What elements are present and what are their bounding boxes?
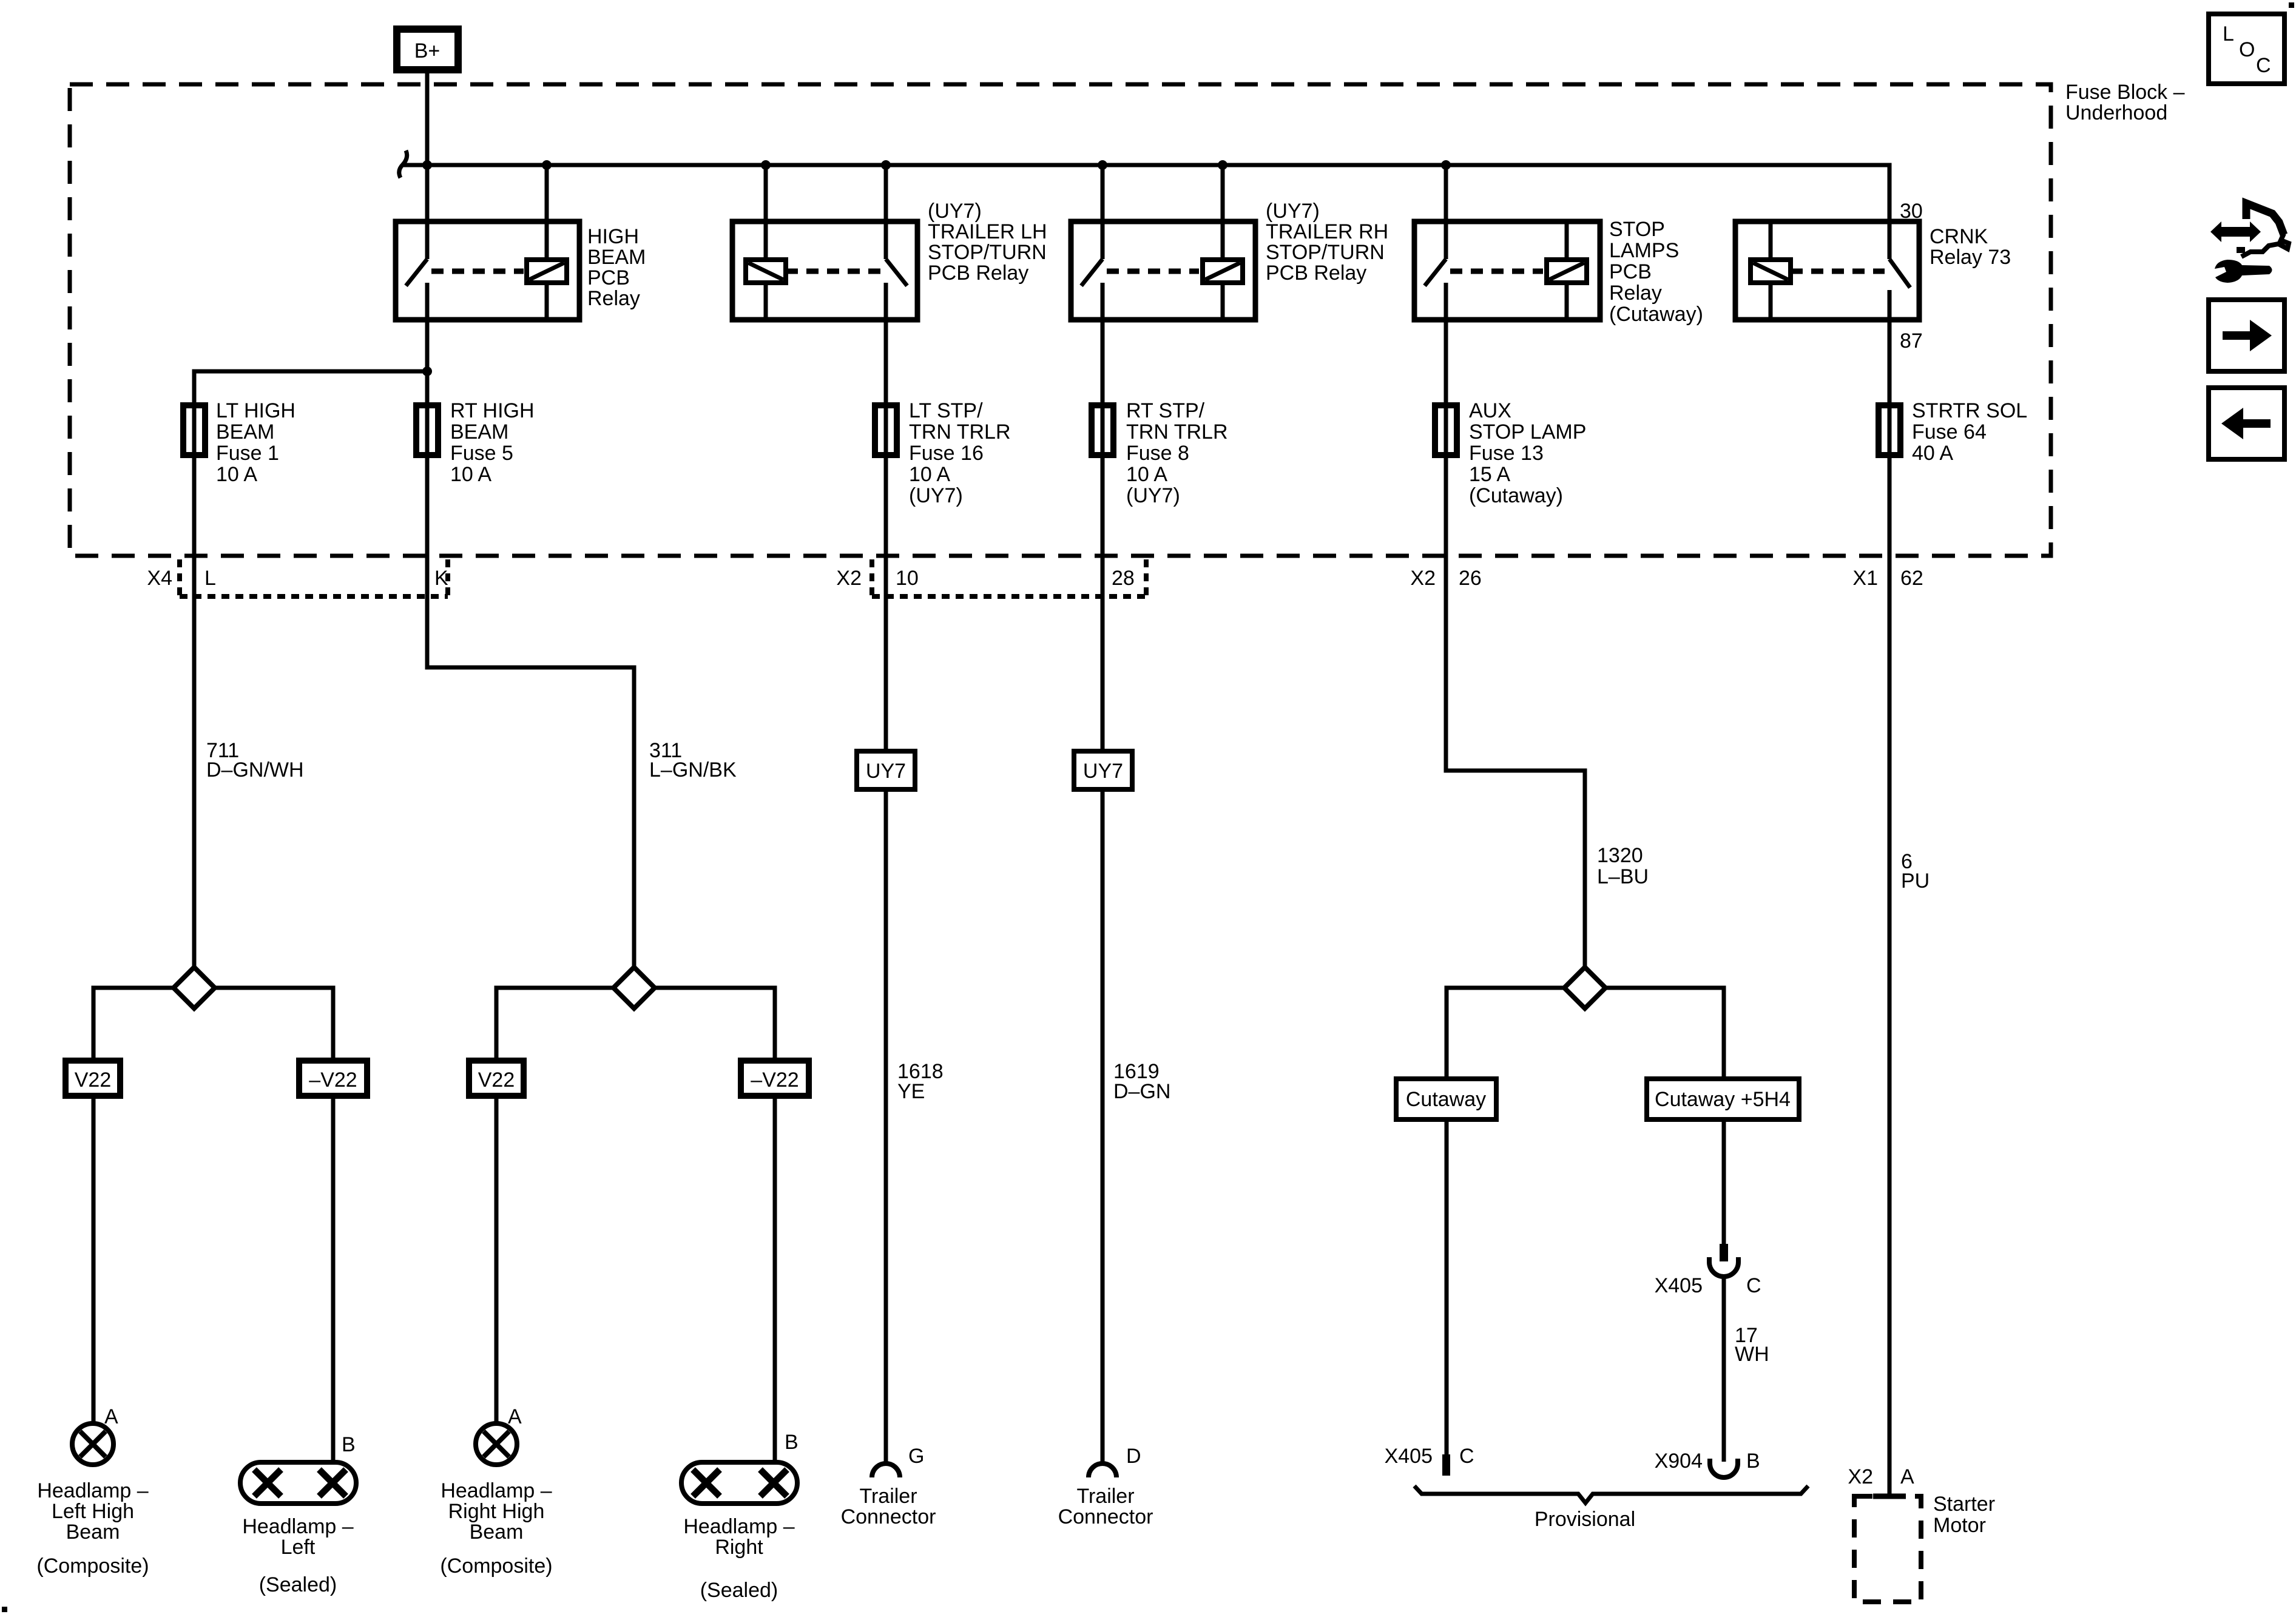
svg-text:X1: X1 [1852,567,1878,590]
svg-text:V22: V22 [478,1068,515,1092]
label wire 711 D-GN/WH [206,739,304,781]
svg-text:Fuse 13: Fuse 13 [1469,442,1544,465]
page mark bottom left [2,1607,7,1612]
wire S1 left branch [93,988,175,1062]
svg-text:Right High: Right High [448,1500,545,1523]
svg-text:K: K [434,567,448,590]
svg-text:RT STP/: RT STP/ [1126,399,1205,422]
component Starter Motor dashed box [1854,1496,1921,1602]
svg-text:TRN TRLR: TRN TRLR [1126,420,1228,444]
svg-text:LT HIGH: LT HIGH [216,399,295,422]
svg-text:Cutaway +5H4: Cutaway +5H4 [1655,1088,1791,1111]
svg-text:LAMPS: LAMPS [1609,239,1679,262]
wire terminal T-bar at starter [1873,1494,1906,1499]
svg-text:Starter: Starter [1933,1493,1995,1516]
icon arrow left box [2209,388,2284,459]
svg-text:YE: YE [897,1080,925,1103]
svg-text:D–GN/WH: D–GN/WH [206,758,304,781]
label trailer connector left [841,1485,936,1528]
label connector X405 pin C second [1655,1274,1761,1297]
svg-text:L–GN/BK: L–GN/BK [649,758,737,781]
svg-text:X405: X405 [1655,1274,1703,1297]
svg-text:G: G [908,1445,924,1468]
label Starter Motor [1933,1493,1995,1537]
icon arrow right box [2209,300,2284,371]
svg-text:–V22: –V22 [751,1068,799,1092]
svg-text:–V22: –V22 [309,1068,357,1092]
wire S2 right branch [653,988,775,1062]
svg-text:(Cutaway): (Cutaway) [1609,303,1703,326]
svg-text:Cutaway: Cutaway [1406,1088,1486,1111]
wire +5H4 to X405 [1722,1119,1726,1244]
relay K5 CRNK Relay 73 [1735,221,1919,322]
svg-text:TRN TRLR: TRN TRLR [909,420,1011,444]
svg-text:O: O [2239,38,2255,61]
label lamp E1 [36,1479,149,1578]
svg-text:TRAILER RH: TRAILER RH [1266,220,1388,243]
lamp E2 Headlamp Left sealed [240,1462,356,1504]
wire V22 left to lamp [92,1096,96,1423]
svg-text:X405: X405 [1385,1445,1433,1468]
inline connector box V22 right [469,1061,524,1096]
svg-text:X904: X904 [1655,1450,1703,1473]
inline option box UY7 left [857,751,915,789]
svg-text:Fuse 8: Fuse 8 [1126,442,1189,465]
svg-text:15 A: 15 A [1469,463,1510,486]
wire V22 right to lamp [495,1096,499,1423]
svg-text:BEAM: BEAM [216,420,274,444]
label fuse F64 [1912,399,2027,465]
splice S3 [1564,967,1606,1008]
svg-text:30: 30 [1900,200,1923,223]
label relay K3 [1266,200,1388,285]
svg-text:10 A: 10 A [909,463,950,486]
svg-text:PCB Relay: PCB Relay [928,262,1028,285]
fuse F64 STRTR SOL [1879,322,1900,458]
svg-text:Fuse 1: Fuse 1 [216,442,279,465]
label trailer connector right [1058,1485,1153,1528]
label relay K1 [587,225,646,310]
label fuse F16 [909,399,1011,507]
inline connector box V22 left [66,1061,120,1096]
label wire 1320 L-BU [1597,844,1649,888]
svg-text:28: 28 [1112,567,1135,590]
svg-text:Headlamp –: Headlamp – [37,1479,148,1502]
svg-text:(Composite): (Composite) [440,1555,552,1578]
svg-text:STRTR SOL: STRTR SOL [1912,399,2027,422]
svg-text:Trailer: Trailer [1076,1485,1134,1508]
svg-text:C: C [1459,1445,1474,1468]
svg-text:L: L [204,567,216,590]
svg-text:WH: WH [1735,1343,1769,1366]
svg-text:(UY7): (UY7) [1266,200,1320,223]
svg-text:PU: PU [1901,869,1930,893]
svg-text:STOP LAMP: STOP LAMP [1469,420,1586,444]
label connector X405 pin C [1385,1445,1474,1468]
lamp E1 Headlamp Left High Beam [72,1423,113,1465]
bus inline connector arc [399,150,407,178]
svg-text:X2: X2 [1410,567,1436,590]
label relay K2 [928,200,1047,285]
svg-text:Relay: Relay [1609,282,1662,305]
connector X904 pin B socket [1710,1459,1738,1477]
svg-text:A: A [104,1405,118,1428]
label lamp E3 [440,1479,552,1578]
label wire 17 WH [1735,1324,1769,1366]
svg-text:B: B [342,1433,356,1456]
svg-text:1320: 1320 [1597,844,1643,867]
label relay K4 [1609,218,1703,326]
lamp E4 Headlamp Right sealed [681,1462,797,1504]
svg-text:L–BU: L–BU [1597,865,1649,888]
svg-text:Provisional: Provisional [1535,1508,1635,1531]
svg-text:B: B [785,1431,799,1454]
node bus junction B+ [422,160,432,170]
inline connector box -V22 left [299,1061,367,1096]
svg-text:C: C [2256,54,2271,77]
component box Cutaway [1396,1079,1496,1119]
svg-text:(Sealed): (Sealed) [259,1573,337,1596]
wire 1619 to UY7 [1101,458,1105,752]
svg-text:TRAILER LH: TRAILER LH [928,220,1047,243]
svg-text:D–GN: D–GN [1113,1080,1170,1103]
brace provisional group [1414,1486,1808,1503]
svg-text:Left High: Left High [52,1500,134,1523]
wire Cutaway to X405 [1445,1119,1449,1456]
wire B+ feed [425,70,430,165]
wire 711 circuit [192,458,197,968]
svg-text:Fuse Block –: Fuse Block – [2065,81,2185,104]
splice S1 [174,967,215,1008]
label fuse F1 [216,399,295,486]
svg-text:Underhood: Underhood [2065,101,2167,124]
svg-text:(UY7): (UY7) [909,484,963,507]
label connector X2 pin A [1848,1465,1914,1488]
wire -V22 right to lamp [773,1096,777,1463]
wire 311 circuit [427,458,634,968]
svg-text:BEAM: BEAM [450,420,508,444]
connector X405 pin C terminal [1442,1454,1450,1476]
svg-text:Left: Left [281,1536,316,1559]
svg-text:Right: Right [715,1536,763,1559]
connector X4 band [180,559,448,598]
svg-text:B+: B+ [414,39,441,62]
svg-text:PCB: PCB [587,266,630,289]
label fuse F5 [450,399,535,486]
svg-text:Relay: Relay [587,287,640,310]
page mark top right [2289,2,2294,8]
svg-text:Fuse 16: Fuse 16 [909,442,984,465]
node bus junction TRLH switch [881,160,891,170]
splice S2 [613,967,655,1008]
connector trailer left [872,1463,900,1477]
connector trailer right [1089,1463,1116,1477]
fuse F16 LT STP/TRN TRLR [875,322,897,458]
svg-text:Headlamp –: Headlamp – [441,1479,552,1502]
power symbol B+ [397,29,458,70]
lamp E3 Headlamp Right High Beam [476,1423,517,1465]
svg-text:Beam: Beam [470,1521,524,1544]
svg-text:X4: X4 [147,567,172,590]
relay K4 STOP LAMPS PCB Relay (Cutaway) [1414,165,1600,322]
svg-text:40 A: 40 A [1912,442,1953,465]
svg-text:Beam: Beam [66,1521,120,1544]
fuse F5 RT HIGH BEAM [416,402,438,458]
svg-text:(UY7): (UY7) [1126,484,1180,507]
relay K2 TRAILER LH STOP/TURN PCB Relay [732,165,917,322]
svg-text:B: B [1746,1450,1760,1473]
label wire 6 PU [1901,850,1930,893]
wire HB relay output junction branch [194,371,427,402]
svg-text:V22: V22 [75,1068,112,1092]
svg-text:STOP/TURN: STOP/TURN [1266,241,1385,264]
svg-text:10 A: 10 A [450,463,491,486]
wire -V22 left to lamp [331,1096,336,1463]
svg-text:(Sealed): (Sealed) [700,1579,778,1602]
node bus junction STOP switch [1441,160,1451,170]
node bus junction TRLH coil [761,160,771,170]
svg-text:(Cutaway): (Cutaway) [1469,484,1563,507]
wire main bus [403,165,1889,259]
svg-text:Connector: Connector [841,1505,936,1528]
node bus junction TRRH coil [1218,160,1227,170]
svg-text:Relay 73: Relay 73 [1930,246,2011,269]
label relay K5 [1930,225,2011,269]
svg-text:CRNK: CRNK [1930,225,1988,248]
inline connector box -V22 right [741,1061,809,1096]
fuse F1 LT HIGH BEAM [183,402,205,458]
svg-text:RT HIGH: RT HIGH [450,399,535,422]
wire S1 right branch [214,988,333,1062]
svg-text:Fuse 64: Fuse 64 [1912,420,1987,444]
svg-text:PCB: PCB [1609,260,1652,283]
svg-text:A: A [1900,1465,1914,1488]
wire 1320 circuit [1446,458,1585,968]
wire 17 WH [1722,1276,1726,1462]
label Fuse Block - Underhood [2065,81,2185,124]
connector X405 pin C female socket [1709,1257,1738,1277]
icon service wrench with arrows [2210,203,2289,283]
svg-text:BEAM: BEAM [587,246,646,269]
svg-text:UY7: UY7 [866,760,906,783]
icon LOC box [2209,14,2284,84]
svg-text:Motor: Motor [1933,1514,1986,1537]
svg-text:10 A: 10 A [216,463,257,486]
fuse block underhood dashed border [70,84,2051,556]
svg-text:87: 87 [1900,329,1923,353]
svg-text:Headlamp –: Headlamp – [683,1515,794,1538]
svg-text:10: 10 [896,567,919,590]
svg-text:Trailer: Trailer [859,1485,917,1508]
connector X405 pin C male terminal [1720,1244,1728,1261]
node junction below K1 [422,366,432,376]
label wire 311 L-GN/BK [649,739,737,781]
svg-text:10 A: 10 A [1126,463,1167,486]
wire S3 left branch [1447,988,1565,1079]
relay K1 HIGH BEAM PCB Relay [396,165,579,322]
connector X2 band [872,559,1146,598]
wire S3 right branch [1604,988,1724,1079]
svg-text:Fuse 5: Fuse 5 [450,442,513,465]
svg-text:Connector: Connector [1058,1505,1153,1528]
label wire 1619 D-GN [1113,1060,1170,1103]
label connector X904 pin B [1655,1450,1760,1473]
relay K3 TRAILER RH STOP/TURN PCB Relay [1071,165,1255,322]
node bus junction TRRH switch [1098,160,1107,170]
svg-text:X2: X2 [836,567,862,590]
svg-text:D: D [1126,1445,1141,1468]
wire 1618 below UY7 [884,789,888,1464]
svg-text:PCB Relay: PCB Relay [1266,262,1366,285]
inline option box UY7 right [1074,751,1132,789]
label lamp E4 [683,1515,794,1602]
svg-text:STOP: STOP [1609,218,1665,241]
svg-text:HIGH: HIGH [587,225,639,248]
svg-text:AUX: AUX [1469,399,1511,422]
wire 1619 below UY7 [1101,789,1105,1464]
svg-text:L: L [2223,22,2234,46]
svg-text:UY7: UY7 [1083,760,1123,783]
svg-text:LT STP/: LT STP/ [909,399,983,422]
fuse F13 AUX STOP LAMP [1435,322,1457,458]
label fuse F13 [1469,399,1586,507]
wire 6 circuit STRTR [1888,458,1892,1496]
label lamp E2 [242,1515,353,1596]
wire S2 left branch [496,988,615,1062]
svg-text:26: 26 [1459,567,1482,590]
node bus junction HB coil [542,160,552,170]
svg-text:Headlamp –: Headlamp – [242,1515,353,1538]
fuse F8 RT STP/TRN TRLR [1092,322,1113,458]
svg-text:A: A [508,1405,522,1428]
svg-text:X2: X2 [1848,1465,1873,1488]
wire 1618 to UY7 [884,458,888,752]
svg-text:(UY7): (UY7) [928,200,982,223]
label fuse F8 [1126,399,1228,507]
svg-text:(Composite): (Composite) [36,1555,149,1578]
svg-text:C: C [1746,1274,1761,1297]
svg-text:STOP/TURN: STOP/TURN [928,241,1047,264]
label wire 1618 YE [897,1060,944,1103]
component box Cutaway +5H4 [1647,1079,1799,1119]
svg-text:62: 62 [1900,567,1923,590]
